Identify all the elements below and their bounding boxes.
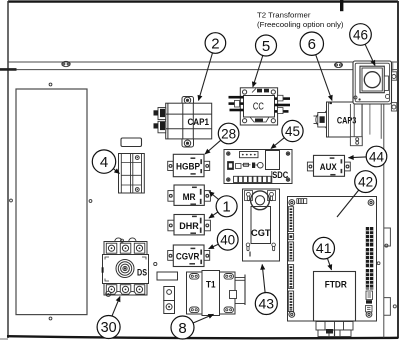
svg-text:41: 41	[316, 240, 332, 256]
small blank plate	[157, 272, 178, 280]
leader arrow for callout 45 to SDC	[271, 138, 284, 149]
svg-text:43: 43	[259, 296, 275, 312]
board left pin connectors	[288, 207, 293, 312]
svg-text:SDC: SDC	[272, 170, 288, 181]
right rail screw upper	[391, 72, 396, 80]
door panel (tall rectangle)	[16, 89, 87, 315]
left thick tick crossing border	[0, 68, 17, 71]
callout circle 5	[256, 35, 277, 56]
short right vertical line	[392, 62, 394, 71]
leader arrow for callout 2 to CAP1	[199, 53, 213, 101]
callout circle 8	[171, 316, 194, 339]
compressor terminal CGT	[243, 189, 280, 261]
callout circle 30	[97, 316, 120, 339]
board right pin headers	[366, 227, 374, 304]
leader arrow for callout 8 to T1	[193, 314, 213, 323]
door screw left	[10, 199, 13, 202]
rail screw left	[62, 61, 70, 66]
svg-text:CAP3: CAP3	[337, 115, 357, 126]
inner right vertical rail	[383, 62, 385, 338]
panel frame right border	[397, 1, 399, 339]
top rail line lower	[0, 69, 398, 71]
svg-text:42: 42	[358, 175, 373, 190]
leader arrow for callout 46 to T2 box	[365, 44, 375, 65]
svg-text:T1: T1	[206, 280, 216, 291]
right rail screw mid1	[377, 262, 380, 265]
callout circle 6	[300, 32, 323, 55]
leader arrow for callout 1 to DHR	[209, 212, 218, 218]
leader arrow for callout 6 to CAP3	[316, 55, 332, 101]
door screw top	[49, 83, 52, 86]
board right small white connector	[366, 291, 373, 312]
svg-text:2: 2	[211, 35, 219, 52]
control board SDC	[224, 150, 292, 184]
capacitor CAP3	[314, 102, 363, 137]
leader arrow for callout 5 to CC	[253, 56, 263, 88]
leader arrow for callout 28 to HGBP	[205, 140, 221, 154]
svg-text:40: 40	[220, 233, 235, 248]
svg-text:46: 46	[353, 27, 368, 42]
screw right of DS	[154, 262, 157, 265]
svg-text:8: 8	[178, 320, 186, 337]
door screw right	[89, 200, 92, 203]
leader arrow for callout 4 to fuse block	[113, 169, 119, 174]
relay MR	[168, 185, 211, 205]
relay DHR	[168, 215, 211, 235]
svg-text:1: 1	[222, 199, 230, 216]
right rail screw lower	[391, 103, 396, 111]
callout circle 40	[217, 229, 238, 250]
svg-text:DHR: DHR	[179, 221, 199, 232]
leader line for callout 42 to board	[337, 190, 359, 217]
leader arrow for callout 44 to AUX	[349, 156, 367, 159]
svg-text:5: 5	[262, 38, 270, 55]
svg-text:HGBP: HGBP	[176, 162, 201, 173]
right rail tab upper	[384, 228, 391, 247]
T2 transformer box item 46	[353, 61, 392, 104]
svg-text:30: 30	[101, 320, 117, 336]
terminal with hole	[164, 287, 175, 314]
svg-text:CGVR: CGVR	[176, 252, 200, 263]
top rail line upper	[8, 61, 398, 63]
top-right black tick on border	[340, 0, 343, 11]
callout circle 4	[92, 150, 115, 173]
relay HGBP	[168, 154, 210, 176]
callout circle 43	[255, 293, 277, 315]
contactor CC	[229, 88, 291, 125]
callout circle 46	[350, 24, 372, 46]
callout circle 28	[218, 123, 239, 144]
door screw bottom	[49, 317, 52, 320]
svg-text:28: 28	[221, 126, 236, 141]
svg-text:AUX: AUX	[320, 162, 338, 173]
svg-text:6: 6	[308, 36, 316, 53]
right rail tab lower	[384, 298, 397, 316]
FTDR terminal blocks below	[316, 322, 353, 337]
capacitor CAP1	[154, 97, 212, 148]
callout circle 41	[313, 237, 335, 259]
svg-text:45: 45	[285, 124, 300, 139]
panel frame bottom border	[7, 336, 398, 338]
svg-text:CC: CC	[253, 100, 264, 112]
callout circle 1	[216, 196, 237, 217]
transformer T1	[187, 271, 246, 316]
relay AUX	[307, 155, 350, 176]
relay FTDR on board	[314, 272, 356, 322]
panel frame left border	[7, 1, 9, 338]
callout circle 2	[205, 33, 226, 54]
callout circle 42	[355, 171, 377, 193]
small cover plate above fuse block	[121, 138, 142, 147]
svg-text:CGT: CGT	[251, 228, 271, 239]
panel frame top border	[8, 0, 398, 2]
leader arrow for callout 40 to CGVR	[209, 244, 219, 249]
svg-text:T2 Transformer: T2 Transformer	[257, 11, 311, 20]
leader arrow for callout 43 to CGT	[262, 265, 265, 293]
svg-text:44: 44	[369, 149, 384, 164]
disconnect switch DS	[103, 238, 149, 296]
leader arrow for callout 30 to DS	[112, 297, 120, 316]
callout circle 45	[282, 120, 303, 141]
svg-text:MR: MR	[183, 192, 196, 203]
leader arrow for callout 1 to MR	[209, 192, 219, 200]
leader arrow for callout 41 to FTDR	[327, 258, 331, 270]
svg-text:CAP1: CAP1	[187, 117, 209, 128]
svg-text:(Freecooling option only): (Freecooling option only)	[257, 20, 344, 29]
black tick on DS left edge	[102, 267, 104, 272]
svg-text:DS: DS	[137, 268, 147, 279]
item 46 mounting bracket	[350, 94, 389, 145]
vertical line right of CAP3	[369, 104, 371, 135]
relay CGVR	[168, 245, 210, 267]
svg-text:4: 4	[100, 154, 108, 171]
callout circle 44	[366, 146, 387, 167]
bottom-left border step	[0, 338, 8, 340]
main control board item 42	[288, 197, 377, 322]
svg-text:FTDR: FTDR	[325, 279, 347, 289]
fuse block item 4	[119, 154, 145, 194]
rail screw right	[335, 62, 343, 67]
